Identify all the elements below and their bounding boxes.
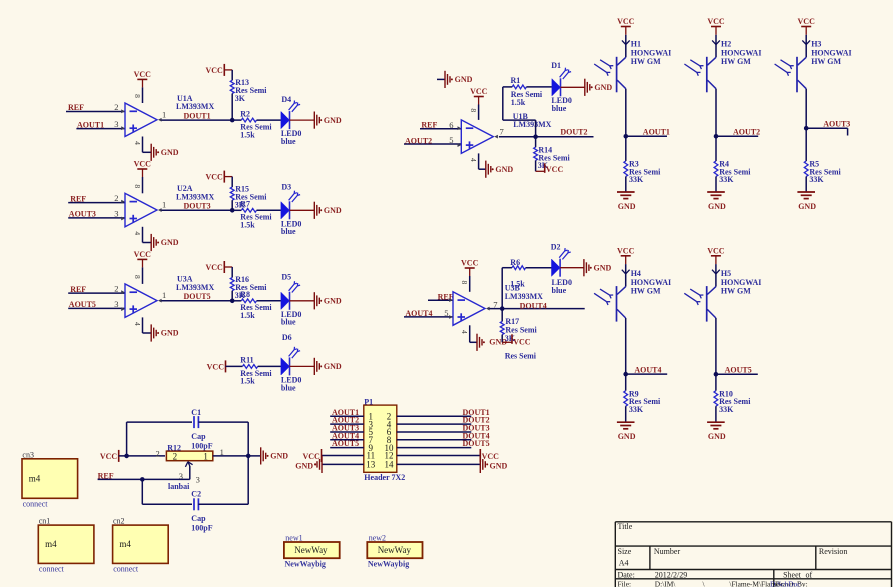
svg-text:8: 8 xyxy=(133,275,142,279)
svg-text:13: 13 xyxy=(366,460,376,470)
svg-text:VCC: VCC xyxy=(134,160,152,169)
svg-text:connect: connect xyxy=(23,499,49,508)
svg-text:LM393MX: LM393MX xyxy=(176,283,214,292)
svg-text:cn3: cn3 xyxy=(22,450,34,459)
svg-text:1.5k: 1.5k xyxy=(240,130,255,139)
svg-text:HW GM: HW GM xyxy=(631,57,661,66)
svg-text:VCC: VCC xyxy=(100,452,118,461)
svg-text:GND: GND xyxy=(455,75,473,84)
svg-text:Cap: Cap xyxy=(191,514,206,523)
svg-text:VCC: VCC xyxy=(707,246,725,255)
svg-text:AOUT5: AOUT5 xyxy=(332,439,359,448)
svg-text:H2: H2 xyxy=(721,40,731,49)
svg-text:AOUT4: AOUT4 xyxy=(405,309,432,318)
svg-text:D3: D3 xyxy=(281,182,291,191)
svg-text:5: 5 xyxy=(449,135,453,145)
svg-text:Size: Size xyxy=(618,547,632,556)
svg-text:cn1: cn1 xyxy=(39,517,51,526)
svg-text:blue: blue xyxy=(281,384,296,393)
svg-text:m4: m4 xyxy=(29,473,41,483)
svg-text:14: 14 xyxy=(385,460,395,470)
svg-text:2: 2 xyxy=(173,451,178,461)
svg-text:NewWaybig: NewWaybig xyxy=(285,560,326,569)
svg-text:GND: GND xyxy=(324,116,342,125)
svg-text:GND: GND xyxy=(708,202,726,211)
svg-text:1.5k: 1.5k xyxy=(240,221,255,230)
svg-text:4: 4 xyxy=(133,231,142,235)
svg-text:VCC: VCC xyxy=(546,165,564,174)
svg-text:2012/2/29: 2012/2/29 xyxy=(655,570,687,579)
svg-text:A4: A4 xyxy=(619,558,629,567)
svg-text:7: 7 xyxy=(493,300,497,310)
svg-text:1: 1 xyxy=(162,110,166,120)
svg-text:3: 3 xyxy=(196,474,200,484)
svg-text:R6: R6 xyxy=(510,258,520,267)
svg-text:VCC: VCC xyxy=(134,70,152,79)
svg-text:5: 5 xyxy=(444,308,448,318)
svg-text:VCC: VCC xyxy=(205,173,223,182)
svg-text:33K: 33K xyxy=(719,175,734,184)
svg-text:DOUT5: DOUT5 xyxy=(463,439,490,448)
svg-text:33K: 33K xyxy=(719,405,734,414)
svg-text:D6: D6 xyxy=(282,333,292,342)
svg-text:Title: Title xyxy=(618,522,633,531)
svg-text:3: 3 xyxy=(114,299,118,309)
svg-text:P1: P1 xyxy=(364,397,373,406)
svg-text:DOUT5: DOUT5 xyxy=(184,292,211,301)
svg-text:VCC: VCC xyxy=(302,452,320,461)
svg-text:DOUT3: DOUT3 xyxy=(184,202,211,211)
svg-text:D2: D2 xyxy=(551,243,561,252)
svg-text:LM393MX: LM393MX xyxy=(176,192,214,201)
svg-text:HW GM: HW GM xyxy=(631,286,661,295)
svg-text:GND: GND xyxy=(324,362,342,371)
svg-text:blue: blue xyxy=(281,227,296,236)
svg-text:blue: blue xyxy=(281,137,296,146)
svg-text:33K: 33K xyxy=(629,175,644,184)
svg-text:lanbai: lanbai xyxy=(168,482,190,491)
svg-text:GND: GND xyxy=(161,238,179,247)
svg-text:8: 8 xyxy=(133,94,142,98)
svg-text:GND: GND xyxy=(594,83,612,92)
svg-text:2: 2 xyxy=(156,448,160,458)
svg-text:C1: C1 xyxy=(191,408,201,417)
svg-text:1: 1 xyxy=(162,290,166,300)
svg-text:GND: GND xyxy=(161,329,179,338)
svg-text:connect: connect xyxy=(39,564,65,573)
svg-text:C2: C2 xyxy=(191,490,201,499)
svg-text:VCC: VCC xyxy=(470,87,488,96)
svg-text:GND: GND xyxy=(490,462,508,471)
svg-text:AOUT3: AOUT3 xyxy=(69,210,96,219)
svg-text:GND: GND xyxy=(618,202,636,211)
svg-text:DOUT4: DOUT4 xyxy=(520,301,547,310)
svg-text:4: 4 xyxy=(133,141,142,145)
svg-text:D1: D1 xyxy=(551,61,561,70)
svg-text:LM393MX: LM393MX xyxy=(176,102,214,111)
svg-text:DOUT2: DOUT2 xyxy=(560,128,587,137)
svg-text:AOUT2: AOUT2 xyxy=(405,136,432,145)
svg-text:1.5k: 1.5k xyxy=(510,280,525,289)
svg-text:blue: blue xyxy=(552,104,567,113)
svg-text:GND: GND xyxy=(324,297,342,306)
svg-text:6: 6 xyxy=(449,120,453,130)
svg-text:AOUT5: AOUT5 xyxy=(69,300,96,309)
svg-text:AOUT5: AOUT5 xyxy=(725,365,752,374)
svg-text:of: of xyxy=(806,570,813,579)
svg-text:Revision: Revision xyxy=(819,547,847,556)
svg-text:HW GM: HW GM xyxy=(811,57,841,66)
svg-text:Date:: Date: xyxy=(618,570,635,579)
svg-text:REF: REF xyxy=(421,121,437,130)
svg-text:VCC: VCC xyxy=(617,17,635,26)
svg-text:3: 3 xyxy=(114,208,118,218)
svg-text:AOUT4: AOUT4 xyxy=(634,365,661,374)
svg-text:AOUT1: AOUT1 xyxy=(643,128,670,137)
svg-text:7: 7 xyxy=(500,127,504,137)
svg-text:LM393MX: LM393MX xyxy=(513,120,551,129)
svg-text:NewWay: NewWay xyxy=(294,545,328,555)
svg-text:blue: blue xyxy=(281,318,296,327)
svg-text:cn2: cn2 xyxy=(113,517,125,526)
svg-text:DOUT1: DOUT1 xyxy=(184,111,211,120)
svg-text:H4: H4 xyxy=(631,269,641,278)
svg-text:1.5k: 1.5k xyxy=(511,98,526,107)
svg-text:D5: D5 xyxy=(281,272,291,281)
svg-text:4: 4 xyxy=(133,322,142,326)
svg-text:VCC: VCC xyxy=(461,259,479,268)
svg-text:VCC: VCC xyxy=(205,263,223,272)
svg-text:HW GM: HW GM xyxy=(721,57,751,66)
svg-text:R11: R11 xyxy=(240,355,253,364)
svg-text:2: 2 xyxy=(114,193,118,203)
svg-text:REF: REF xyxy=(70,194,86,203)
svg-text:GND: GND xyxy=(798,202,816,211)
svg-text:8: 8 xyxy=(460,281,469,285)
svg-text:3: 3 xyxy=(114,119,118,129)
svg-text:R7: R7 xyxy=(240,199,250,208)
svg-text:33K: 33K xyxy=(629,405,644,414)
svg-text:100pF: 100pF xyxy=(191,523,212,532)
svg-text:8: 8 xyxy=(469,108,478,112)
svg-text:HW GM: HW GM xyxy=(721,286,751,295)
svg-text:GND: GND xyxy=(594,263,612,272)
svg-text:File:: File: xyxy=(618,579,632,587)
svg-text:GND: GND xyxy=(161,148,179,157)
svg-text:33K: 33K xyxy=(809,175,824,184)
svg-text:R8: R8 xyxy=(240,290,250,299)
svg-text:m4: m4 xyxy=(119,539,131,549)
svg-text:4: 4 xyxy=(469,158,478,162)
svg-text:Cap: Cap xyxy=(191,432,206,441)
svg-text:GND: GND xyxy=(295,462,313,471)
svg-text:D.SchDoc: D.SchDoc xyxy=(770,579,801,587)
svg-text:VCC: VCC xyxy=(207,362,225,371)
svg-text:connect: connect xyxy=(113,564,139,573)
svg-text:GND: GND xyxy=(324,206,342,215)
svg-text:VCC: VCC xyxy=(798,17,816,26)
svg-text:VCC: VCC xyxy=(205,66,223,75)
svg-text:Number: Number xyxy=(654,547,681,556)
svg-text:1: 1 xyxy=(203,451,208,461)
svg-text:Header 7X2: Header 7X2 xyxy=(364,473,405,482)
svg-text:100pF: 100pF xyxy=(191,442,212,451)
svg-text:REF: REF xyxy=(68,103,84,112)
svg-text:VCC: VCC xyxy=(513,338,531,347)
svg-text:D:\IM\: D:\IM\ xyxy=(655,579,676,587)
svg-text:2: 2 xyxy=(114,284,118,294)
svg-text:Res Semi: Res Semi xyxy=(505,351,537,360)
svg-text:2: 2 xyxy=(114,102,118,112)
svg-text:NewWaybig: NewWaybig xyxy=(368,560,409,569)
svg-text:GND: GND xyxy=(270,452,288,461)
svg-text:D4: D4 xyxy=(281,95,291,104)
svg-text:H3: H3 xyxy=(811,40,821,49)
svg-text:H1: H1 xyxy=(631,40,641,49)
svg-text:1.5k: 1.5k xyxy=(240,311,255,320)
svg-text:8: 8 xyxy=(133,184,142,188)
svg-text:new1: new1 xyxy=(285,533,302,542)
svg-text:VCC: VCC xyxy=(707,17,725,26)
svg-text:AOUT3: AOUT3 xyxy=(823,119,850,128)
svg-text:3K: 3K xyxy=(235,94,246,103)
svg-text:new2: new2 xyxy=(369,533,386,542)
svg-text:H5: H5 xyxy=(721,269,731,278)
svg-text:GND: GND xyxy=(708,432,726,441)
svg-text:LM393MX: LM393MX xyxy=(505,292,543,301)
svg-text:Sheet: Sheet xyxy=(783,570,802,579)
svg-text:VCC: VCC xyxy=(617,246,635,255)
svg-text:GND: GND xyxy=(618,432,636,441)
svg-text:4: 4 xyxy=(460,330,469,334)
svg-text:1.5k: 1.5k xyxy=(240,377,255,386)
svg-text:R1: R1 xyxy=(511,76,521,85)
svg-text:VCC: VCC xyxy=(134,250,152,259)
svg-text:VCC: VCC xyxy=(482,452,500,461)
svg-text:REF: REF xyxy=(70,285,86,294)
svg-text:1: 1 xyxy=(162,200,166,210)
svg-text:AOUT1: AOUT1 xyxy=(77,120,104,129)
svg-text:R2: R2 xyxy=(240,109,250,118)
svg-text:m4: m4 xyxy=(45,539,57,549)
svg-text:blue: blue xyxy=(552,286,567,295)
svg-text:GND: GND xyxy=(495,165,513,174)
svg-text:NewWay: NewWay xyxy=(378,545,412,555)
svg-text:AOUT2: AOUT2 xyxy=(733,128,760,137)
